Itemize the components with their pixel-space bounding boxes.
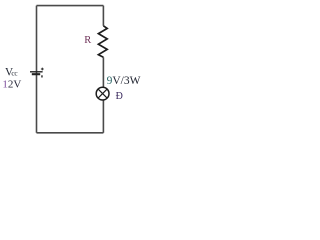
- battery plus sign: [41, 68, 44, 71]
- wire left: [36, 6, 38, 133]
- battery short plate: [32, 73, 40, 75]
- wire top: [37, 5, 104, 7]
- svg-text:cc: cc: [11, 69, 17, 77]
- svg-text:Đ: Đ: [116, 91, 123, 102]
- wire right middle: [102, 57, 104, 87]
- wire right lower: [102, 100, 104, 133]
- battery minus tick: [41, 75, 43, 77]
- lamp D circle: [96, 87, 109, 100]
- resistor R: [98, 26, 107, 58]
- wire bottom: [37, 132, 104, 134]
- battery long plate: [30, 71, 43, 73]
- svg-text:R: R: [84, 35, 91, 46]
- svg-text:9V/3W: 9V/3W: [107, 75, 141, 87]
- lamp D cross: [98, 89, 107, 98]
- svg-text:12V: 12V: [2, 78, 21, 90]
- wire right upper: [102, 6, 104, 26]
